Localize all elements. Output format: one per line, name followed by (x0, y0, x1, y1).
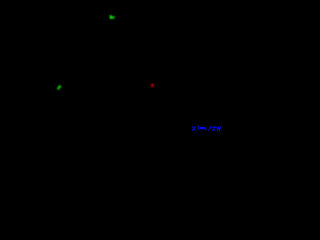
atom label Cl (top) (110, 15, 115, 19)
watermark glyph W (217, 126, 223, 131)
watermark glyph 2 (212, 127, 215, 130)
atom label Cl (left) (57, 86, 61, 90)
watermark glyph x (192, 127, 195, 131)
watermark bar word (198, 126, 207, 131)
watermark slash (209, 126, 212, 130)
atom label O (151, 84, 154, 88)
